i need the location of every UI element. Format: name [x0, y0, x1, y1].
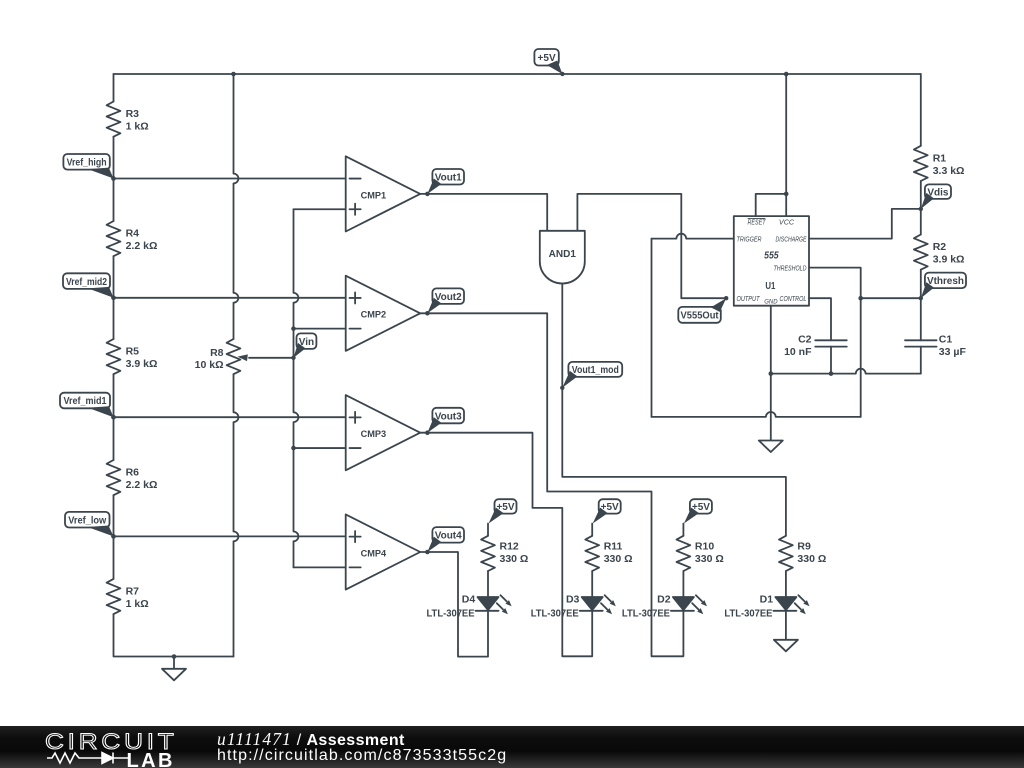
svg-text:3.3 kΩ: 3.3 kΩ: [933, 165, 965, 177]
node V555Out: [678, 296, 728, 323]
capacitor C1: [905, 298, 966, 373]
ground (D1): [774, 640, 798, 652]
resistor R3: [107, 102, 149, 137]
svg-text:CONTROL: CONTROL: [780, 294, 807, 303]
svg-text:Vout2: Vout2: [435, 292, 462, 303]
svg-text:D4: D4: [462, 594, 476, 606]
wire Vref_low to R7: [113, 536, 115, 579]
wire RESET to VCC: [756, 194, 787, 216]
svg-text:R8: R8: [210, 347, 224, 359]
resistor R4: [107, 221, 158, 256]
svg-text:330 Ω: 330 Ω: [797, 553, 826, 565]
node Vout1_mod: [560, 362, 622, 390]
resistor R12: [481, 536, 528, 597]
svg-text:Vdis: Vdis: [927, 187, 949, 198]
node Vref_low: [65, 512, 116, 539]
wire Vref_high to CMP1: [114, 178, 346, 180]
wire Vthresh link: [861, 297, 921, 299]
svg-text:R10: R10: [695, 541, 714, 553]
svg-text:RESET: RESET: [748, 218, 766, 227]
wire trigger-threshold bottom: [652, 412, 861, 417]
svg-text:R12: R12: [500, 541, 519, 553]
node Vout4: [427, 527, 464, 552]
svg-text:1 kΩ: 1 kΩ: [126, 598, 149, 610]
op-amp CMP4 (comparator): [346, 514, 430, 589]
wire Vref_high to R4: [113, 179, 115, 222]
resistor R10: [677, 536, 724, 597]
CircuitLab logo: [45, 731, 178, 754]
power label +5V (R12): [488, 499, 517, 536]
wire R2 to Vthresh: [920, 270, 922, 299]
node Vref_mid2: [63, 273, 116, 300]
resistor R7: [107, 579, 149, 614]
svg-text:DISCHARGE: DISCHARGE: [776, 234, 807, 243]
svg-text:THRESHOLD: THRESHOLD: [774, 263, 807, 272]
wire Vref_mid1 to CMP3: [114, 416, 346, 418]
svg-text:C1: C1: [939, 333, 953, 345]
potentiometer R8: [195, 339, 294, 374]
node CMP2 inverting tap: [291, 326, 346, 331]
wire R8 top (rail to pot): [234, 74, 239, 339]
svg-text:33 µF: 33 µF: [939, 346, 967, 358]
resistor R5: [107, 339, 158, 374]
node Vout3: [427, 408, 464, 433]
svg-text:+5V: +5V: [692, 502, 710, 513]
wire R2 leads: [920, 209, 922, 235]
svg-text:D2: D2: [657, 594, 671, 606]
footer metadata text: [217, 731, 405, 749]
LED D2: [622, 594, 707, 620]
node CMP3 inverting tap: [291, 446, 346, 451]
wire AND1 output (Vout1_mod): [562, 284, 786, 536]
svg-text:GND: GND: [764, 300, 778, 306]
svg-text:U1: U1: [765, 281, 775, 292]
node ground junction: [172, 654, 177, 659]
svg-text:1 kΩ: 1 kΩ: [126, 121, 149, 133]
svg-text:330 Ω: 330 Ω: [500, 553, 529, 565]
op-amp CMP2 (comparator): [346, 276, 430, 351]
node RESET-VCC junction: [784, 192, 789, 197]
node +5V rail junction at VCC: [784, 72, 789, 77]
svg-text:D1: D1: [760, 594, 774, 606]
svg-text:OUTPUT: OUTPUT: [737, 294, 760, 303]
svg-text:Vout1_mod: Vout1_mod: [572, 365, 619, 376]
wire Vout2 to D2: [427, 313, 683, 656]
resistor R11: [585, 536, 632, 597]
ground (bottom rail): [162, 657, 186, 681]
node GND junction: [769, 371, 774, 376]
svg-text:Vin: Vin: [299, 337, 314, 348]
svg-text:LTL-307EE: LTL-307EE: [427, 607, 475, 619]
ic U1 (555 timer): [734, 216, 809, 306]
and-gate AND1: [540, 231, 585, 284]
svg-text:+5V: +5V: [496, 502, 514, 513]
wire DISCHARGE to Vdis: [809, 209, 921, 239]
wire D1 cathode to ground: [785, 611, 787, 640]
svg-text:Vthresh: Vthresh: [927, 276, 964, 287]
wire Vref_mid2 to R5: [113, 298, 115, 339]
wire Vref_low to CMP4: [114, 535, 346, 537]
svg-text:R4: R4: [126, 228, 140, 240]
wire Vout3 to D3: [427, 433, 592, 657]
svg-text:3.9 kΩ: 3.9 kΩ: [126, 358, 158, 370]
wire Vout4 to D4: [427, 552, 488, 657]
LED D4: [427, 594, 512, 620]
wire R7 to bottom rail: [114, 614, 234, 656]
wire ladder top segment: [113, 74, 115, 102]
svg-text:R7: R7: [126, 586, 140, 598]
wire V555Out to AND1 input: [577, 194, 726, 298]
svg-text:Vout1: Vout1: [435, 172, 462, 183]
node Vout1: [427, 169, 464, 194]
svg-text:LTL-307EE: LTL-307EE: [622, 607, 670, 619]
svg-text:R6: R6: [126, 467, 140, 479]
svg-text:R1: R1: [933, 153, 947, 165]
svg-text:D3: D3: [566, 594, 580, 606]
wire trigger vertical: [651, 239, 653, 417]
logo squiggle (resistor + diode): [46, 750, 132, 766]
svg-text:3.9 kΩ: 3.9 kΩ: [933, 254, 965, 266]
svg-text:R2: R2: [933, 241, 947, 253]
wire +5V top rail: [114, 73, 921, 75]
wire gnd stem: [770, 374, 772, 441]
ground (555): [759, 441, 783, 453]
svg-text:LTL-307EE: LTL-307EE: [531, 607, 579, 619]
capacitor C2: [784, 333, 847, 373]
node +5V rail junction at R8: [231, 72, 236, 77]
svg-text:+5V: +5V: [538, 53, 556, 64]
wire R8 bottom (pot to gnd rail): [234, 374, 239, 656]
svg-text:Vref_low: Vref_low: [68, 515, 106, 526]
wire VCC to rail: [785, 74, 787, 216]
power label +5V (R11): [592, 499, 621, 536]
svg-text:10 nF: 10 nF: [784, 346, 812, 358]
svg-text:R3: R3: [126, 108, 140, 120]
svg-text:+5V: +5V: [601, 502, 619, 513]
node Vdis: [919, 184, 951, 211]
resistor R2: [914, 235, 965, 270]
svg-text:330 Ω: 330 Ω: [695, 553, 724, 565]
svg-text:VCC: VCC: [779, 218, 795, 227]
power label +5V (R10): [683, 499, 712, 536]
svg-text:CMP3: CMP3: [361, 429, 387, 439]
svg-text:2.2 kΩ: 2.2 kΩ: [126, 479, 158, 491]
node Vout2: [427, 288, 464, 313]
svg-text:330 Ω: 330 Ω: [604, 553, 633, 565]
LED D3: [531, 594, 616, 620]
svg-text:10 kΩ: 10 kΩ: [195, 359, 224, 371]
svg-text:LTL-307EE: LTL-307EE: [724, 607, 772, 619]
wire TRIGGER: [652, 234, 734, 239]
svg-text:V555Out: V555Out: [681, 311, 720, 322]
wire R3 to Vref_high: [113, 137, 115, 179]
power label +5V (top rail): [534, 49, 564, 76]
wire gnd to C1: [771, 369, 921, 374]
node threshold junction: [858, 296, 863, 301]
wire R5 to Vref_mid1: [113, 374, 115, 417]
node Vref_mid1: [60, 393, 116, 420]
wire R6 to Vref_low: [113, 495, 115, 536]
svg-text:C2: C2: [798, 333, 812, 345]
op-amp CMP3 (comparator): [346, 395, 430, 470]
footer bar: [0, 726, 1024, 768]
wire threshold vertical: [809, 268, 861, 417]
svg-text:CMP2: CMP2: [361, 310, 387, 320]
node C2 gnd junction: [829, 371, 834, 376]
svg-text:R5: R5: [126, 346, 140, 358]
wire Vref_mid2 to CMP2: [114, 297, 346, 299]
svg-text:R11: R11: [604, 541, 623, 553]
wire rail to R1: [920, 74, 922, 146]
svg-text:Vout4: Vout4: [435, 531, 462, 542]
node Vref_high: [63, 154, 115, 181]
wire R4 to Vref_mid2: [113, 256, 115, 298]
wire Vout1 to AND1 input: [427, 194, 547, 231]
LED D1: [724, 594, 809, 620]
wire Vin vertical: [294, 209, 346, 567]
svg-text:CMP4: CMP4: [361, 548, 387, 558]
resistor R1: [914, 146, 965, 181]
wire CONTROL to C2: [809, 298, 831, 340]
svg-text:555: 555: [764, 251, 779, 262]
wire GND pin: [770, 306, 772, 374]
svg-text:Vref_high: Vref_high: [67, 158, 107, 169]
node Vin: [291, 333, 316, 360]
svg-text:CMP1: CMP1: [361, 190, 387, 200]
op-amp CMP1 (comparator): [346, 156, 430, 231]
svg-text:Vref_mid1: Vref_mid1: [64, 396, 107, 407]
wire R1 to Vdis: [920, 181, 922, 209]
svg-text:2.2 kΩ: 2.2 kΩ: [126, 240, 158, 252]
svg-text:Vref_mid2: Vref_mid2: [66, 277, 107, 288]
svg-text:TRIGGER: TRIGGER: [737, 234, 762, 243]
svg-text:AND1: AND1: [549, 249, 577, 260]
svg-text:R9: R9: [797, 541, 811, 553]
wire Vref_mid1 to R6: [113, 417, 115, 460]
node Vthresh: [919, 273, 966, 301]
resistor R6: [107, 460, 158, 495]
svg-text:Vout3: Vout3: [435, 411, 462, 422]
resistor R9: [779, 536, 826, 597]
